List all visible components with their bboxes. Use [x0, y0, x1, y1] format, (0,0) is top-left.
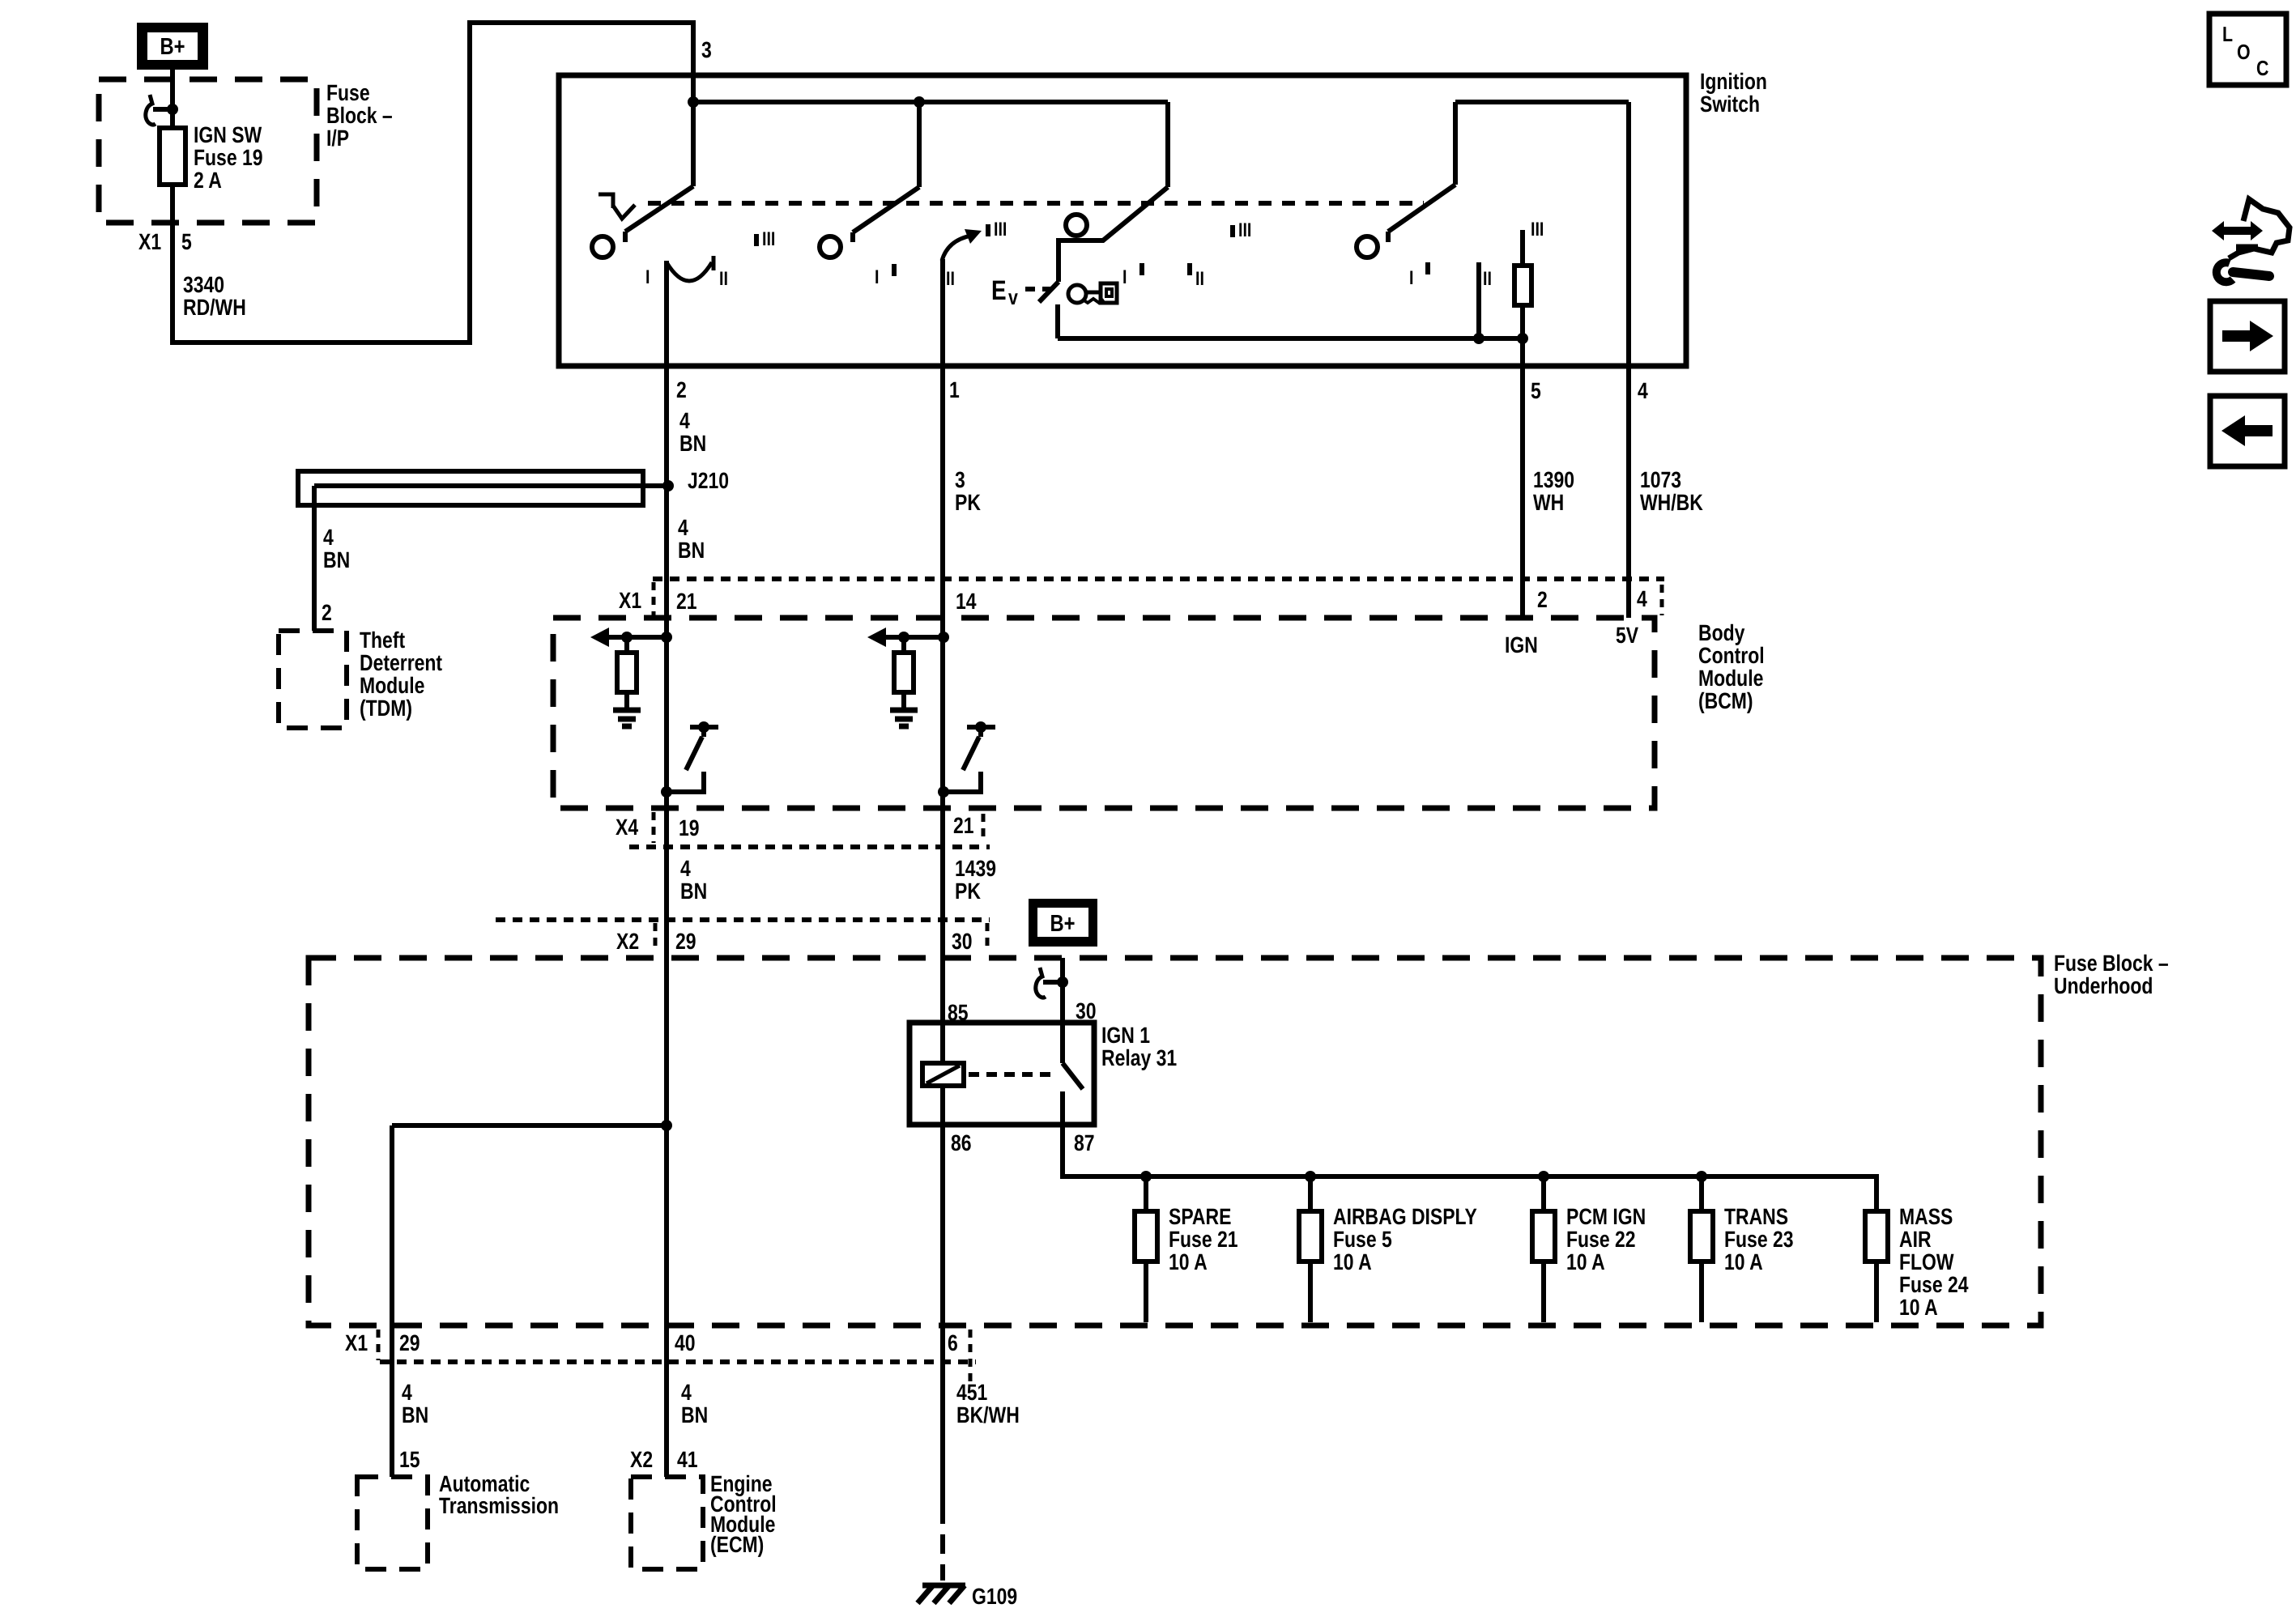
- svg-text:III: III: [762, 228, 775, 250]
- switch gang 4 riser to pin 4 wire: [1455, 100, 1629, 104]
- svg-text:(BCM): (BCM): [1698, 688, 1753, 713]
- ignition switch pin 5 output wire 1390 WH: [1520, 338, 1525, 618]
- svg-text:BK/WH: BK/WH: [956, 1402, 1020, 1427]
- svg-text:I/P: I/P: [326, 126, 349, 151]
- fuse Fuse 24 (MASS): [1865, 1211, 1888, 1261]
- svg-text:II: II: [946, 268, 955, 290]
- svg-text:4: 4: [681, 1380, 692, 1405]
- svg-text:Fuse 5: Fuse 5: [1333, 1227, 1392, 1252]
- switch 3 contact circle: [1066, 215, 1087, 236]
- fuse Fuse 23 (TRANS): [1690, 1211, 1713, 1261]
- wire Fuse 24 to block edge: [1874, 1261, 1879, 1322]
- wire bus to Fuse 23: [1699, 1176, 1704, 1211]
- ignition switch pin 1 output wire 3 PK (to relay coil): [940, 259, 945, 1063]
- svg-text:19: 19: [679, 815, 700, 840]
- diagnostic icon (animal with arrow and wrench): [2212, 221, 2263, 240]
- svg-text:X2: X2: [630, 1447, 653, 1472]
- junction node fuse bus / Fuse 23: [1696, 1171, 1707, 1182]
- junction node fuse bus / Fuse 21: [1140, 1171, 1152, 1182]
- BCM PK input (pin 14) internal switch to output: [967, 725, 995, 730]
- Automatic Transmission dashed box: [357, 1477, 428, 1569]
- svg-text:Switch: Switch: [1700, 91, 1760, 117]
- svg-text:BN: BN: [402, 1402, 428, 1427]
- switch 4 position II stub: [1476, 262, 1481, 338]
- svg-text:C: C: [2256, 56, 2269, 80]
- battery positive terminal B+ (relay feed): [1029, 899, 1097, 947]
- svg-text:Transmission: Transmission: [439, 1493, 559, 1518]
- svg-text:II: II: [719, 268, 728, 290]
- svg-text:II: II: [1483, 268, 1492, 290]
- BCM input network on PK input (pin 14): junction node: [938, 632, 949, 643]
- fuse Fuse 22 (PCM IGN): [1532, 1211, 1555, 1261]
- svg-text:3: 3: [701, 37, 712, 62]
- svg-text:2: 2: [676, 377, 687, 402]
- BCM PK input (pin 14) pull-down resistor: [898, 632, 909, 643]
- svg-text:RD/WH: RD/WH: [183, 295, 246, 320]
- relay coil: [922, 1063, 964, 1086]
- svg-text:PCM IGN: PCM IGN: [1566, 1204, 1646, 1229]
- switch gang 2 blade: [917, 102, 922, 187]
- svg-text:O: O: [2237, 40, 2251, 64]
- svg-text:I: I: [645, 266, 650, 288]
- wire Fuse 22 to block edge: [1541, 1261, 1546, 1322]
- svg-text:II: II: [1195, 268, 1204, 290]
- Body Control Module dashed box: [553, 618, 1655, 808]
- svg-text:X1: X1: [619, 588, 641, 613]
- svg-text:III: III: [1531, 219, 1544, 240]
- bottom connector ticks: [377, 1330, 381, 1360]
- svg-text:4: 4: [680, 856, 691, 881]
- svg-text:SPARE: SPARE: [1169, 1204, 1231, 1229]
- svg-text:I: I: [875, 266, 879, 288]
- svg-text:I: I: [1409, 267, 1413, 289]
- internal B+ bus wire: [691, 75, 696, 186]
- svg-text:2 A: 2 A: [194, 168, 222, 193]
- svg-text:21: 21: [676, 589, 697, 614]
- svg-text:5V: 5V: [1616, 623, 1638, 648]
- svg-text:AIR: AIR: [1899, 1227, 1932, 1252]
- ignition switch box: [559, 75, 1686, 366]
- svg-text:2: 2: [322, 600, 332, 625]
- BCM input network on BN input (pin 21): junction node: [661, 632, 672, 643]
- resistor inside ignition switch (position III feed): [1520, 230, 1525, 266]
- svg-text:Theft: Theft: [360, 628, 405, 653]
- svg-text:BN: BN: [679, 431, 706, 456]
- svg-text:10 A: 10 A: [1724, 1249, 1763, 1274]
- svg-text:Relay 31: Relay 31: [1101, 1045, 1177, 1070]
- svg-text:X4: X4: [616, 815, 638, 840]
- svg-text:14: 14: [956, 589, 977, 614]
- svg-text:Fuse 24: Fuse 24: [1899, 1272, 1969, 1297]
- svg-text:BN: BN: [323, 547, 350, 572]
- relay actuator dashed link: [969, 1072, 1054, 1077]
- svg-text:III: III: [1238, 219, 1251, 241]
- svg-text:29: 29: [675, 929, 696, 954]
- svg-text:TRANS: TRANS: [1724, 1204, 1788, 1229]
- junction node bus/switch2: [914, 96, 925, 108]
- svg-text:10 A: 10 A: [1566, 1249, 1605, 1274]
- svg-text:1439: 1439: [955, 856, 996, 881]
- svg-text:Underhood: Underhood: [2054, 973, 2153, 998]
- terminal curl symbol at fuse 19 feed: [146, 95, 155, 125]
- BCM PK input (pin 14) ground symbol: [890, 708, 918, 713]
- svg-text:Fuse Block –: Fuse Block –: [2054, 951, 2169, 976]
- splice pack J210: [298, 471, 643, 505]
- wire fuse 19 to ignition switch pin 3: [173, 23, 693, 342]
- svg-text:(TDM): (TDM): [360, 696, 412, 721]
- wire B+ to relay 30: [1060, 958, 1065, 1063]
- svg-text:Fuse 23: Fuse 23: [1724, 1227, 1794, 1252]
- svg-text:10 A: 10 A: [1169, 1249, 1208, 1274]
- junction node J210 on BN wire: [662, 480, 674, 491]
- svg-text:Deterrent: Deterrent: [360, 650, 442, 675]
- wire bus to Fuse 5: [1308, 1176, 1313, 1211]
- LOC page reference box: [2209, 14, 2286, 85]
- switch gang 1 blade: [625, 186, 693, 232]
- wire B+ to fuse 19: [170, 70, 175, 128]
- switch gang 2 contact circle: [820, 236, 841, 257]
- svg-text:Ignition: Ignition: [1700, 69, 1767, 94]
- wire Fuse 5 to block edge: [1308, 1261, 1313, 1322]
- svg-text:Module: Module: [360, 673, 424, 698]
- position symbol (lock) near switch 1: [598, 194, 613, 208]
- svg-text:X1: X1: [138, 229, 161, 254]
- svg-text:21: 21: [953, 813, 974, 838]
- svg-text:IGN 1: IGN 1: [1101, 1023, 1150, 1048]
- relay switch contact: [1060, 1091, 1065, 1125]
- relay output 87 wire to fuse bus: [1063, 1125, 1876, 1211]
- svg-text:WH/BK: WH/BK: [1640, 490, 1703, 515]
- svg-text:1390: 1390: [1533, 467, 1574, 492]
- svg-text:1: 1: [949, 377, 960, 402]
- svg-text:X2: X2: [616, 929, 639, 954]
- terminal curl symbol at relay B+ feed: [1036, 968, 1046, 998]
- svg-text:10 A: 10 A: [1899, 1295, 1938, 1320]
- junction node fuse bus / Fuse 5: [1305, 1171, 1316, 1182]
- connector row X4 dotted line: [629, 845, 990, 849]
- svg-text:87: 87: [1074, 1130, 1095, 1155]
- svg-text:PK: PK: [955, 879, 981, 904]
- BCM BN input (pin 21) ground symbol: [613, 708, 641, 713]
- switch gang 1 contact circle: [592, 236, 613, 257]
- back arrow navigation box: [2210, 396, 2285, 466]
- svg-text:v: v: [1008, 285, 1018, 309]
- svg-text:30: 30: [1076, 998, 1097, 1023]
- Fuse Block - Underhood dashed box: [309, 958, 2041, 1325]
- Fuse Block - I/P dashed box: [99, 79, 317, 223]
- svg-text:WH: WH: [1533, 490, 1564, 515]
- mechanical linkage dashed line: [648, 201, 1424, 206]
- svg-text:15: 15: [399, 1447, 420, 1472]
- svg-text:29: 29: [399, 1330, 420, 1355]
- svg-text:40: 40: [675, 1330, 696, 1355]
- wire Fuse 21 to block edge: [1144, 1261, 1148, 1322]
- connector row X1 dotted line (BCM top): [653, 576, 1664, 581]
- ground G109 symbol: [922, 1583, 965, 1589]
- fuse Fuse 5 (AIRBAG DISPLY): [1299, 1211, 1322, 1261]
- battery positive terminal B+ (top left): [137, 23, 208, 70]
- svg-text:X1: X1: [345, 1330, 368, 1355]
- svg-text:BN: BN: [681, 1402, 708, 1427]
- switch gang 4 contact circle: [1357, 236, 1378, 257]
- svg-text:10 A: 10 A: [1333, 1249, 1372, 1274]
- svg-text:Fuse 22: Fuse 22: [1566, 1227, 1636, 1252]
- svg-text:J210: J210: [688, 468, 729, 493]
- svg-text:AIRBAG DISPLY: AIRBAG DISPLY: [1333, 1204, 1477, 1229]
- fuse F19 IGN SW 2A: [160, 128, 185, 185]
- key icon: [1068, 285, 1086, 303]
- svg-text:G109: G109: [972, 1584, 1017, 1609]
- junction node bus/switch1: [688, 96, 699, 108]
- wire bus to Fuse 22: [1541, 1176, 1546, 1211]
- connector row X2 dotted line: [496, 917, 990, 922]
- switch 3 contact to output: [1055, 304, 1060, 338]
- svg-text:III: III: [994, 219, 1007, 240]
- svg-text:BN: BN: [680, 879, 707, 904]
- svg-text:41: 41: [677, 1447, 698, 1472]
- svg-text:4: 4: [678, 515, 688, 540]
- connector tick right of pin 4: [1660, 585, 1664, 615]
- svg-text:Block –: Block –: [326, 103, 393, 128]
- svg-text:1073: 1073: [1640, 467, 1681, 492]
- connector X2 ticks: [654, 923, 658, 952]
- svg-text:Fuse: Fuse: [326, 80, 370, 105]
- fuse Fuse 21 (SPARE): [1135, 1211, 1157, 1261]
- BCM BN input (pin 21) internal switch to output: [690, 725, 718, 730]
- switch gang 4 blade: [1388, 185, 1455, 232]
- ignition switch pin 2 output wire 4 BN (runs to ECM): [664, 261, 669, 1477]
- junction node BN wire / AT branch: [661, 1120, 672, 1131]
- svg-text:Fuse 21: Fuse 21: [1169, 1227, 1238, 1252]
- connector X1 tick: [652, 582, 656, 617]
- svg-text:3340: 3340: [183, 272, 224, 297]
- svg-text:86: 86: [951, 1130, 972, 1155]
- BCM BN input (pin 21) pull-down resistor: [621, 632, 633, 643]
- svg-text:4: 4: [679, 408, 690, 433]
- switch gang 3 (key lock) riser and blade: [1165, 102, 1170, 187]
- relay coil wire 1439 PK continues to ground: [940, 1086, 945, 1504]
- wire bus to Fuse 21: [1144, 1176, 1148, 1211]
- svg-text:30: 30: [952, 929, 973, 954]
- junction node fuse bus / Fuse 22: [1538, 1171, 1549, 1182]
- svg-text:IGN SW: IGN SW: [194, 122, 262, 147]
- branch wire to automatic transmission: [392, 1123, 667, 1128]
- svg-text:B+: B+: [160, 34, 185, 60]
- svg-text:PK: PK: [955, 490, 981, 515]
- svg-text:4: 4: [1637, 586, 1647, 611]
- svg-text:IGN: IGN: [1505, 632, 1538, 657]
- bottom connector row dotted line: [380, 1359, 976, 1364]
- svg-text:(ECM): (ECM): [710, 1532, 764, 1557]
- svg-text:2: 2: [1537, 587, 1548, 612]
- svg-text:Body: Body: [1698, 620, 1745, 645]
- svg-text:3: 3: [955, 467, 965, 492]
- svg-text:Fuse 19: Fuse 19: [194, 145, 263, 170]
- svg-text:BN: BN: [678, 538, 705, 563]
- BCM BN input (pin 21) signal arrow: [607, 635, 667, 640]
- svg-text:B+: B+: [1050, 911, 1075, 937]
- svg-text:6: 6: [948, 1330, 958, 1355]
- svg-text:4: 4: [402, 1380, 412, 1405]
- relay IGN 1 Relay 31 box: [909, 1023, 1094, 1125]
- svg-text:I: I: [1122, 266, 1127, 288]
- Theft Deterrent Module dashed box: [279, 631, 347, 728]
- svg-text:E: E: [991, 275, 1007, 306]
- dashed continuation of 451 BK/WH wire: [940, 1504, 945, 1581]
- svg-text:4: 4: [1638, 378, 1648, 403]
- svg-text:L: L: [2222, 22, 2233, 46]
- forward arrow navigation box: [2210, 301, 2285, 372]
- wire Fuse 23 to block edge: [1699, 1261, 1704, 1322]
- relay switch blade: [1063, 1063, 1083, 1089]
- svg-text:5: 5: [1531, 378, 1541, 403]
- svg-text:Control: Control: [1698, 643, 1765, 668]
- svg-text:Module: Module: [1698, 666, 1763, 691]
- svg-text:5: 5: [181, 229, 192, 254]
- connector X4 ticks: [652, 812, 656, 843]
- svg-text:4: 4: [323, 525, 334, 550]
- Engine Control Module dashed box: [631, 1477, 703, 1569]
- BCM PK input (pin 14) signal arrow: [884, 635, 944, 640]
- ignition switch pin 4 wire 1073 WH/BK: [1626, 102, 1631, 618]
- svg-text:451: 451: [956, 1380, 987, 1405]
- svg-text:MASS: MASS: [1899, 1204, 1953, 1229]
- svg-text:FLOW: FLOW: [1899, 1249, 1954, 1274]
- switch 3/4 output wire to pin 5 node: [1058, 336, 1523, 341]
